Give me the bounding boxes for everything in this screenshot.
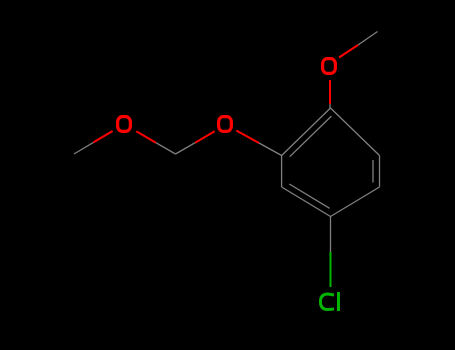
ring bond C6-C1: [331, 108, 380, 156]
bond O3-CH3 carbon half: [358, 32, 378, 46]
ring bond C4-C5: [331, 187, 380, 217]
bond C4-Cl carbon half: [330, 217, 332, 253]
ring bond C1-C2: [282, 108, 331, 156]
atom label Cl: letter C: [321, 294, 335, 310]
ring bond C5-C6: [379, 156, 381, 188]
bond O2-C2 carbon half: [259, 143, 282, 156]
bond O1-CH2 carbon half: [156, 143, 176, 154]
ring bond C2-C3: [281, 156, 283, 188]
atom label Cl: letter l: [337, 292, 340, 311]
atom label O1 (left methoxy oxygen): [118, 117, 131, 132]
bond O1-CH2 oxygen half: [136, 131, 156, 142]
ring double bond inner C1-C2: [290, 116, 332, 157]
bond C1-O3 carbon half: [329, 104, 331, 108]
atom label O2 (MOM ring oxygen): [219, 117, 232, 132]
bond O2-C2 oxygen half: [236, 131, 259, 144]
bond C4-Cl chlorine half: [330, 252, 332, 287]
ring double bond inner C5-C6: [372, 160, 374, 183]
bond CH2-O2 oxygen half: [195, 131, 215, 142]
ring bond C3-C4: [282, 187, 331, 217]
bond CH2-O2 carbon half: [176, 143, 196, 154]
atom label O3 (top methoxy oxygen): [323, 59, 336, 74]
ring double bond inner C3-C4: [289, 184, 329, 208]
bond O3-CH3 oxygen half: [339, 45, 358, 58]
bond CH3-O1 carbon half: [74, 142, 93, 154]
bond C1-O3 oxygen half: [329, 80, 331, 104]
bond CH3-O1 oxygen half: [93, 131, 112, 142]
